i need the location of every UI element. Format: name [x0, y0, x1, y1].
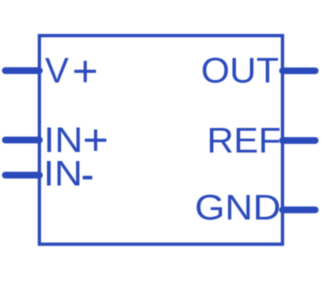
pin OUT wire [283, 67, 316, 74]
pin IN- wire [5, 172, 39, 179]
svg-text:OUT: OUT [201, 51, 279, 91]
pin IN+ wire [5, 137, 39, 144]
pin GND wire [283, 207, 316, 214]
svg-text:GND: GND [195, 188, 281, 228]
svg-text:IN: IN [43, 154, 82, 194]
svg-text:REF: REF [207, 120, 281, 160]
op-amp U1 body [39, 36, 282, 245]
pin REF wire [283, 137, 316, 144]
pin V+ wire [5, 67, 39, 74]
svg-text:V: V [45, 50, 69, 90]
